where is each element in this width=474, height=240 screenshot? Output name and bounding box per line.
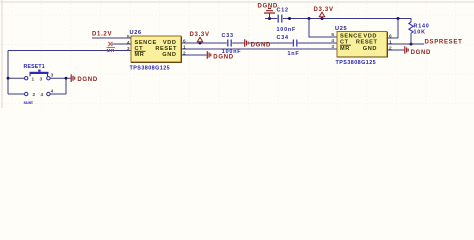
capacitor C12 <box>278 15 282 23</box>
svg-text:DGND: DGND <box>251 43 271 49</box>
junction at left rail <box>7 77 10 80</box>
switch RESET1 body <box>25 70 51 96</box>
wire MR net: U26 pin3 to left rail and switch left pins <box>8 51 131 95</box>
wire U26 GND <box>181 54 207 56</box>
svg-text:D3.3V: D3.3V <box>314 7 334 13</box>
svg-text:D3.3V: D3.3V <box>190 32 210 38</box>
wire C34 to U25 CT <box>298 42 337 44</box>
wire U25 GND <box>387 49 404 51</box>
junction R140 bottom <box>410 43 413 46</box>
svg-text:U26: U26 <box>130 30 142 36</box>
svg-text:MR: MR <box>135 52 145 58</box>
U26 MR overline <box>135 50 146 52</box>
svg-text:TPS3808G125: TPS3808G125 <box>336 60 377 66</box>
ground DGND at U25 GND <box>405 46 408 54</box>
net label MR <box>107 48 116 54</box>
ground DGND top <box>264 8 275 18</box>
svg-text:DGND: DGND <box>411 50 431 56</box>
wire D3.3V top rail <box>265 18 411 20</box>
ground DGND at C33 <box>245 39 249 47</box>
U26 pin names <box>135 40 178 58</box>
svg-text:DGND: DGND <box>258 3 278 9</box>
U26 pin numbers <box>127 34 186 57</box>
wire D1.2V to U26 SENCE <box>92 37 131 39</box>
svg-text:DGND: DGND <box>77 77 97 83</box>
capacitor C34 <box>293 40 296 47</box>
svg-text:GND: GND <box>162 52 176 58</box>
svg-text:DGND: DGND <box>213 54 233 60</box>
svg-text:10K: 10K <box>414 30 426 36</box>
svg-text:MR: MR <box>107 48 115 54</box>
resistor R140 <box>409 19 413 45</box>
svg-text:C12: C12 <box>277 8 289 14</box>
svg-text:4: 4 <box>41 92 44 98</box>
wire rail to U25 SENCE <box>309 19 337 38</box>
U25 pin numbers <box>331 32 392 52</box>
switch pin numbers <box>32 73 54 99</box>
svg-text:5: 5 <box>127 34 130 40</box>
svg-text:U25: U25 <box>335 26 347 32</box>
wire U25 RESET to DSPRESET <box>387 43 424 45</box>
IC U25 body <box>337 32 387 58</box>
svg-text:RESET1: RESET1 <box>24 64 45 70</box>
svg-text:DSPRESET: DSPRESET <box>425 39 463 45</box>
wire C33 ground to C34 <box>249 42 293 44</box>
ground DGND at U26 GND <box>207 51 211 59</box>
svg-text:TPS3808G125: TPS3808G125 <box>130 66 171 72</box>
svg-text:MR: MR <box>340 46 350 52</box>
svg-text:4: 4 <box>331 38 334 44</box>
svg-text:3: 3 <box>40 76 43 82</box>
svg-text:RESET: RESET <box>356 40 378 46</box>
capacitor C33 <box>228 40 231 47</box>
svg-text:1nF: 1nF <box>288 51 300 57</box>
svg-text:1: 1 <box>32 76 35 82</box>
ground DGND at switch <box>71 74 75 82</box>
svg-text:5: 5 <box>331 32 334 38</box>
svg-text:4: 4 <box>127 40 130 46</box>
svg-text:100nF: 100nF <box>277 27 297 33</box>
svg-text:CT: CT <box>340 40 349 46</box>
svg-text:C33: C33 <box>222 33 234 39</box>
svg-text:GND: GND <box>363 46 377 52</box>
power port D3.3V at U26 VDD <box>197 37 202 44</box>
junction at switch right <box>65 77 68 80</box>
junction dots on rail <box>268 17 400 20</box>
U25 pin names <box>340 34 378 52</box>
wire rail to U25 VDD <box>387 19 398 39</box>
IC U26 body <box>131 36 181 62</box>
wire U26 CT stub <box>112 43 131 45</box>
svg-text:3: 3 <box>331 44 334 50</box>
no-connect X on U26 CT <box>108 42 112 46</box>
svg-text:sust: sust <box>24 100 34 105</box>
svg-text:C34: C34 <box>277 35 289 41</box>
svg-text:D1.2V: D1.2V <box>92 32 112 38</box>
svg-text:3: 3 <box>127 46 130 52</box>
svg-text:2: 2 <box>33 92 36 98</box>
wire U26 RESET to U25 MR <box>181 48 337 50</box>
svg-text:6: 6 <box>389 33 392 39</box>
power port D3.3V top <box>319 12 324 18</box>
wire U26 VDD to C33 <box>181 42 244 44</box>
U25 MR overline <box>340 44 351 46</box>
wire switch right pins to ground <box>50 78 71 94</box>
